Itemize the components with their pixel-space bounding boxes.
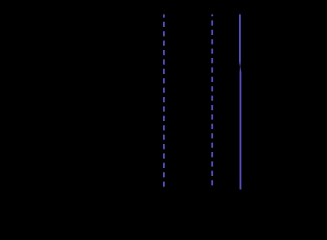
dashed vertical line 2 (211, 14, 213, 189)
solid vertical line lower segment (widens from pinch) (240, 67, 242, 190)
dashed vertical line 1 (163, 14, 165, 189)
solid vertical line upper segment (tapers to pinch at y~67) (239, 14, 241, 67)
